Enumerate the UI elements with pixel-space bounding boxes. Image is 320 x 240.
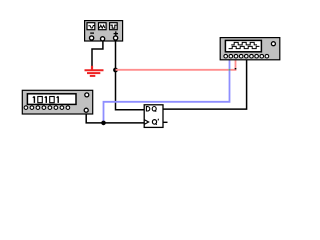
analyzer screen <box>225 40 261 51</box>
function generator XFG1 <box>85 21 123 41</box>
word generator right lower terminal <box>84 108 88 112</box>
crossing artifact dot where blue wire crosses red wire <box>229 69 231 70</box>
digit 1 <box>33 96 35 103</box>
sine wave button <box>87 23 95 30</box>
wire stub on flip-flop Q' output <box>163 121 168 123</box>
clock input chevron <box>144 120 148 125</box>
wire from function generator + terminal down to node A and on to flip-flop D input <box>116 41 145 110</box>
D flip-flop U1 <box>144 105 163 128</box>
wire (red) from node A to logic analyzer channel 3 <box>116 60 236 70</box>
analyzer channel terminals 1-9 <box>224 54 228 58</box>
corner waypoint dot on red wire <box>235 68 237 69</box>
triangle wave button <box>99 23 107 30</box>
lower trace <box>229 46 260 48</box>
terminal COM <box>101 37 105 41</box>
digit 0 <box>38 97 43 103</box>
terminal + <box>114 36 118 40</box>
wire (blue) from node B to logic analyzer channel 2 <box>104 60 230 124</box>
wire from function generator COM terminal to ground <box>92 41 103 67</box>
plus label <box>114 33 118 35</box>
digit 0 <box>50 97 55 103</box>
digit 1 <box>45 96 47 103</box>
square wave button <box>110 23 118 30</box>
pin label D <box>146 107 149 111</box>
digit 1 <box>57 96 59 103</box>
node B junction dot <box>101 121 106 126</box>
wire from flip-flop Q output to logic analyzer channel 5 <box>163 60 247 110</box>
word generator right upper terminal <box>85 93 89 97</box>
pin label Q' <box>152 120 156 125</box>
word generator XWG1 <box>22 90 92 114</box>
word generator screen <box>27 94 76 105</box>
analyzer top-right terminal <box>271 42 275 46</box>
wire from word generator output terminal to flip-flop clock input <box>86 112 144 123</box>
logic analyzer XLA1 <box>220 38 280 60</box>
word generator bottom terminals 1-8 <box>24 106 28 110</box>
minus label <box>90 32 94 34</box>
terminal - <box>90 36 94 40</box>
node A junction dot <box>113 68 118 73</box>
ground GND1 <box>85 66 104 76</box>
pin label Q <box>152 107 156 112</box>
upper trace <box>231 42 257 45</box>
